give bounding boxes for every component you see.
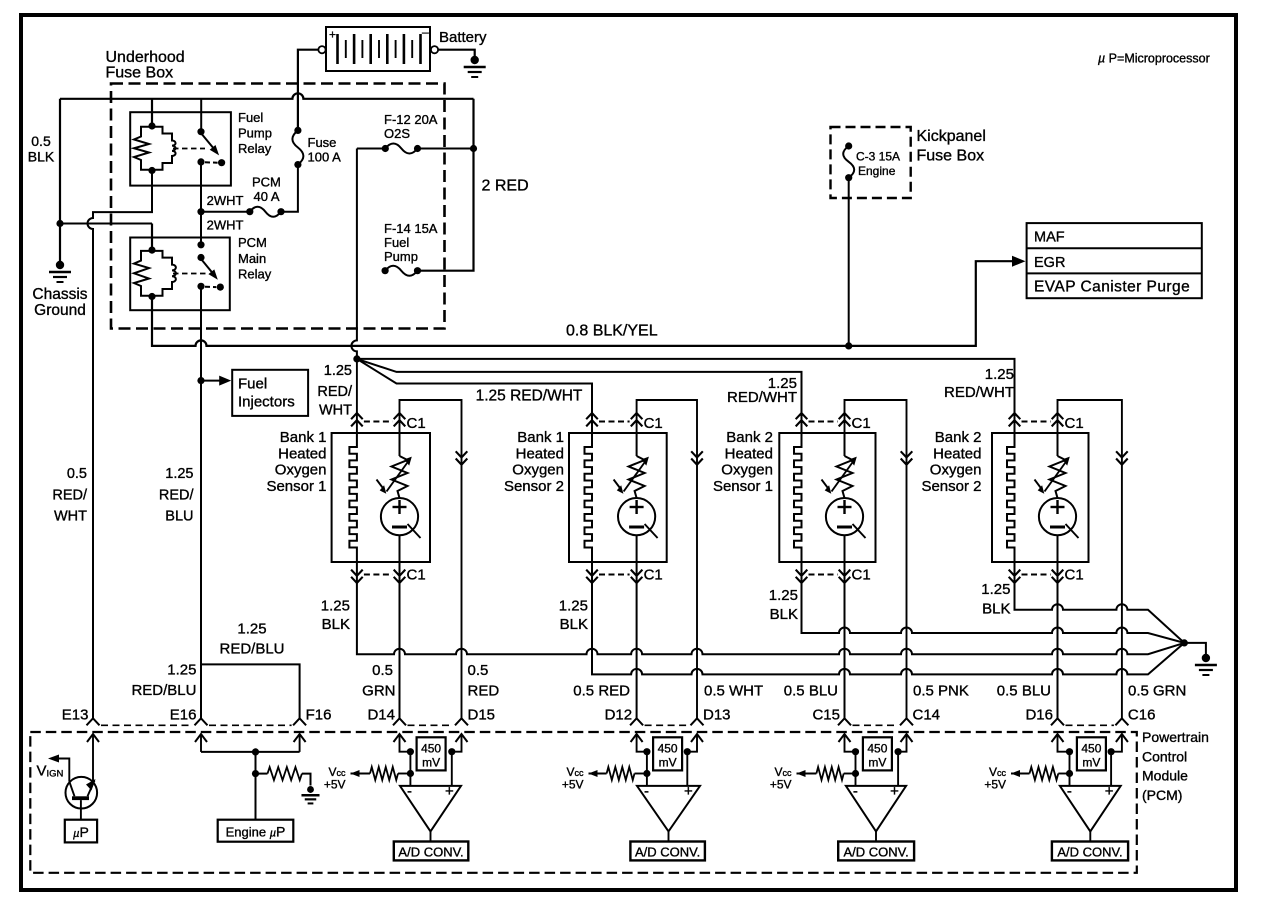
svg-text:Heated: Heated [278,445,326,462]
resistor to Vcc (ch3) [797,767,856,780]
A/D converter (ch3) [838,842,914,861]
svg-text:2WHT: 2WHT [207,218,244,233]
svg-text:Ground: Ground [34,302,86,319]
A/D converter (ch2) [630,842,705,861]
svg-text:A/D CONV.: A/D CONV. [398,844,463,859]
svg-text:mV: mV [868,755,886,769]
oxygen sensor box Bank 2 Sensor 2 [992,433,1089,562]
wire E16/F16 column 1.25 RED/BLU [201,286,300,718]
underhood fuse box (dashed) [111,84,445,329]
svg-text:0.5 PNK: 0.5 PNK [913,683,969,700]
PCM box (dashed) [30,732,1137,873]
label 1.25 RED/WHT main [317,363,353,419]
op-amp (ch4) [1060,783,1121,831]
connector pin chevron x=201 [195,718,208,725]
junction 2WHT [197,208,204,215]
wire to PCM 40A fuse [201,211,250,213]
junction engine pull resistor [252,770,259,777]
ground bus ground symbol [1195,654,1217,675]
svg-text:C-3 15A: C-3 15A [856,150,900,164]
svg-text:Bank 2: Bank 2 [935,429,982,446]
fuel injectors box [232,370,308,416]
svg-text:Fuel: Fuel [238,376,267,393]
svg-text:C1: C1 [852,415,871,432]
svg-text:-: - [853,783,858,800]
svg-text:C14: C14 [913,707,941,724]
junction ground bus [1181,639,1188,646]
svg-text:RED/: RED/ [52,488,88,504]
svg-text:BLK: BLK [982,601,1010,618]
svg-text:0.5 RED: 0.5 RED [573,683,630,700]
arrow VIGN [48,755,59,763]
wire heater ground bus (Bank 2 Sensor 1) [802,562,1185,643]
wire fuel pump relay coil top [151,99,153,126]
label PCM Main Relay [238,235,272,282]
label 1.25 RED/WHT sensor3 [727,375,797,406]
svg-text:C15: C15 [812,707,840,724]
ground battery [464,56,486,77]
oxygen sensor box Bank 1 Sensor 1 [332,433,430,562]
label 0.5 RED/WHT [52,466,88,525]
svg-text:100 A: 100 A [308,150,342,165]
junction kickpanel / 0.8 BLK/YEL [845,342,852,349]
label 0.5 BLK [28,133,55,165]
wire pin links (ch1) [400,734,462,752]
wire 1.25 RED/WHT main drop [351,149,357,359]
svg-text:C16: C16 [1128,707,1156,724]
svg-text:Main: Main [238,251,266,266]
svg-text:Kickpanel: Kickpanel [917,128,986,145]
svg-text:A/D CONV.: A/D CONV. [635,844,700,859]
svg-text:Powertrain: Powertrain [1142,729,1209,745]
svg-text:D12: D12 [605,707,633,724]
wire pin links (ch4) [1058,734,1122,752]
svg-text:1.25: 1.25 [985,366,1014,383]
junction Vcc resistor (ch3) [852,770,859,777]
svg-text:Heated: Heated [725,445,773,462]
connector C1 top (Bank 2 Sensor 1) [796,413,871,432]
svg-text:RED/WHT: RED/WHT [727,389,797,406]
wire op-amp inputs (ch4) [1070,752,1112,786]
wire F-12 to 2 RED [418,148,474,150]
svg-text:1.25: 1.25 [167,662,196,679]
heater element (Bank 1 Sensor 2) [585,433,593,562]
svg-text:A/D CONV.: A/D CONV. [1057,844,1122,859]
wire sensor reference bridge (Bank 2 Sensor 2) [1058,400,1122,718]
svg-text:2 RED: 2 RED [482,178,529,195]
svg-text:mV: mV [1082,755,1100,769]
svg-text:+: + [329,28,336,42]
svg-text:(PCM): (PCM) [1142,787,1182,803]
resistor to Vcc (ch4) [1011,767,1070,780]
connector pin chevron x=1121.9 [1115,718,1128,725]
svg-text:1.25: 1.25 [237,621,266,638]
connector C1 top (Bank 1 Sensor 2) [586,413,663,432]
svg-text:C1: C1 [1065,415,1084,432]
svg-text:450: 450 [867,741,887,755]
svg-text:1.25: 1.25 [769,587,798,604]
wire top rail 0.5 BLK [60,93,474,98]
svg-text:Battery: Battery [439,29,487,46]
svg-text:WHT: WHT [54,509,87,525]
pcm main relay box [130,238,230,311]
wire op-amp inputs (ch2) [647,752,687,786]
svg-text:BLK: BLK [322,616,350,633]
pin arrow x=697 [691,734,703,742]
svg-text:C1: C1 [644,567,663,584]
svg-text:-: - [644,783,649,800]
svg-text:Bank 1: Bank 1 [517,429,564,446]
junction 2 RED / F-12 [470,145,477,152]
svg-text:F-12 20A: F-12 20A [384,112,438,127]
connector C1 top (Bank 1 Sensor 1) [351,413,426,432]
svg-text:+: + [445,783,454,800]
wire sensor reference bridge (Bank 1 Sensor 2) [637,400,697,718]
svg-text:0.5: 0.5 [372,662,393,679]
wire heater bus 1 (to sensor 4) [357,359,1015,433]
connector C1 bottom (Bank 1 Sensor 2) [586,567,663,584]
label Vcc +5V (ch4) [984,765,1006,792]
svg-text:450: 450 [421,741,441,755]
label PCM 40 A [252,175,281,205]
wire 2 RED [418,99,474,271]
label 1.25 RED/WHT sensor4 [944,366,1014,401]
wire sensor signal (Bank 2 Sensor 1) [844,562,846,718]
svg-text:MAF: MAF [1034,230,1065,246]
svg-text:BLK: BLK [560,616,588,633]
wire battery negative [438,50,475,56]
label 0.5 RED (D15) [468,662,500,700]
pin arrow x=93 [87,734,99,742]
connector pin chevron x=697 [691,718,704,725]
connector dashed link 93-201 [101,724,193,726]
arrow to fuel injectors [201,376,231,386]
svg-text:Sensor 1: Sensor 1 [266,478,326,495]
svg-text:C1: C1 [852,567,871,584]
junction 1.25 RED/WHT fan-out [353,355,360,362]
svg-text:Fuel: Fuel [238,110,263,125]
svg-text:RED/: RED/ [159,488,195,504]
label 1.25 RED/BLU E16 [131,662,196,700]
wire 0.5 BLK drop [59,99,61,224]
A/D converter (ch1) [394,842,469,861]
svg-text:1.25 RED/WHT: 1.25 RED/WHT [476,388,583,405]
svg-text:Engine: Engine [858,164,896,178]
svg-text:BLK: BLK [770,606,798,623]
svg-text:+5V: +5V [770,778,792,792]
svg-text:RED/: RED/ [317,384,353,400]
connector chevrons reference line (Bank 2 Sensor 1) [901,451,913,464]
label Vcc +5V (ch2) [562,765,584,792]
svg-text:Module: Module [1142,768,1188,784]
op-amp (ch1) [400,783,461,831]
wire sensor signal (Bank 2 Sensor 2) [1057,562,1059,718]
connector dashed link 201-299.6 [209,724,292,726]
connector pin chevron x=636.6 [630,718,643,725]
wire chassis to PCM main relay coil [151,224,153,251]
wire op-amp output (ch1) [430,831,432,841]
junction Vcc resistor (ch4) [1066,770,1073,777]
connector dashed link 844.5-906.5 [853,724,899,726]
label Kickpanel Fuse Box [917,128,986,165]
reference 450 mV (ch2) [643,737,691,770]
connector C1 bottom (Bank 2 Sensor 1) [796,567,871,584]
wire E16/F16 join [201,734,300,752]
oxygen sensor box Bank 2 Sensor 1 [779,433,875,562]
resistor engine pull-down [256,767,311,785]
label Bank 2 Heated Oxygen Sensor 2 [921,429,981,495]
wire kickpanel drop [848,178,850,346]
wire chassis rail [60,223,152,225]
svg-text:1.25: 1.25 [559,598,588,615]
label Vcc +5V (ch3) [770,765,792,792]
svg-text:Pump: Pump [384,249,418,264]
svg-text:40 A: 40 A [254,189,280,204]
label Chassis Ground [32,286,87,319]
svg-text:E16: E16 [170,707,197,724]
sensor element (Bank 2 Sensor 1) [822,433,866,562]
reference 450 mV (ch1) [407,737,456,770]
wire heater ground bus (Bank 2 Sensor 2) [1015,562,1185,643]
svg-text:0.5: 0.5 [31,133,51,149]
fuel pump relay switch [197,128,225,166]
label Fuse 100 A [308,135,342,165]
svg-text:C1: C1 [407,415,426,432]
svg-text:Oxygen: Oxygen [721,462,773,479]
connector chevrons reference line (Bank 1 Sensor 1) [456,451,468,464]
svg-text:Sensor 1: Sensor 1 [713,478,773,495]
microprocessor box (uP) [65,820,97,843]
svg-text:Bank 1: Bank 1 [280,429,327,446]
wire F-12 to main drop [357,148,385,150]
svg-text:Control: Control [1142,748,1187,764]
battery [318,25,438,71]
svg-text:GRN: GRN [362,683,395,700]
svg-text:Fuel: Fuel [384,235,409,250]
label 1.25 BLK (Bank 2 Sensor 2) [981,581,1010,618]
connector chevrons reference line (Bank 1 Sensor 2) [691,451,703,464]
svg-text:D14: D14 [367,707,395,724]
svg-text:+: + [890,783,899,800]
op-amp (ch2) [637,783,700,831]
fuel pump relay link (dashed) [173,148,205,150]
connector dashed link 1057.5-1121.9 [1066,724,1114,726]
wire op-amp output (ch4) [1089,831,1091,841]
connector pin chevron x=1057.5 [1051,718,1064,725]
connector pin chevron x=299.6 [293,718,306,725]
label Fuel Injectors [238,376,295,411]
svg-text:C1: C1 [644,415,663,432]
svg-text:0.5 GRN: 0.5 GRN [1128,683,1186,700]
svg-text:O2S: O2S [384,126,410,141]
svg-text:2WHT: 2WHT [207,193,244,208]
svg-text:0.5: 0.5 [67,466,87,482]
svg-text:0.5 WHT: 0.5 WHT [704,683,763,700]
wire sensor reference bridge (Bank 2 Sensor 1) [845,400,907,718]
svg-text:C1: C1 [1065,567,1084,584]
svg-text:C1: C1 [407,567,426,584]
label Underhood Fuse Box [106,49,185,82]
kickpanel fuse box (dashed) [831,127,911,198]
svg-text:–: – [422,25,429,39]
svg-text:Fuse Box: Fuse Box [106,65,174,82]
svg-text:1.25: 1.25 [324,363,352,379]
svg-text:Oxygen: Oxygen [930,462,982,479]
label 1.25 BLK (Bank 1 Sensor 2) [559,598,588,634]
label 0.5 GRN [362,662,395,700]
transistor Q1 [57,759,97,820]
connector C1 bottom (Bank 2 Sensor 2) [1009,567,1084,584]
svg-text:+5V: +5V [984,778,1006,792]
fuel pump relay coil [134,122,176,174]
svg-text:1.25: 1.25 [981,581,1010,598]
connector chevrons reference line (Bank 2 Sensor 2) [1116,451,1128,464]
wire sensor 1 heater drop [356,359,358,433]
svg-text:E13: E13 [62,707,89,724]
pin arrow x=1057.5 [1052,734,1064,742]
MAF EGR EVAP box [1027,223,1202,298]
label 1.25 RED/BLU bridge [219,621,284,658]
svg-text:Oxygen: Oxygen [512,462,564,479]
connector C1 top (Bank 2 Sensor 2) [1009,413,1084,432]
oxygen sensor box Bank 1 Sensor 2 [569,433,667,562]
pcm main relay switch [197,241,224,291]
svg-text:+5V: +5V [562,778,584,792]
svg-text:450: 450 [658,741,678,755]
wire sensor reference bridge (Bank 1 Sensor 1) [400,400,462,718]
label Bank 2 Heated Oxygen Sensor 1 [713,429,773,495]
svg-text:Relay: Relay [238,141,272,156]
svg-text:Bank 2: Bank 2 [726,429,773,446]
arrow to EGR [1012,256,1026,267]
label F-12 20A O2S [384,112,438,141]
svg-text:RED: RED [468,683,500,700]
heater element (Bank 2 Sensor 1) [794,433,802,562]
connector pin chevron x=844.5 [838,718,851,725]
fuel pump relay box [130,112,231,185]
connector pin chevron x=906.5 [900,718,913,725]
svg-text:0.5: 0.5 [468,662,489,679]
pin arrow x=299.6 [294,734,306,742]
connector pin chevron x=399.5 [393,718,406,725]
pcm main relay coil [134,247,176,301]
wire heater bus 3 (to sensor 2) [357,359,592,433]
svg-text:RED/BLU: RED/BLU [219,641,284,658]
heater element (Bank 1 Sensor 1) [349,433,357,562]
svg-text:+5V: +5V [324,778,346,792]
svg-text:Injectors: Injectors [238,394,295,411]
wire 2WHT switch column [200,162,202,245]
wire 0.5 RED/WHT to E13 [88,171,152,719]
fuse F-14 15A [382,266,422,276]
wire E13 to transistor [92,734,94,781]
svg-text:Sensor 2: Sensor 2 [504,478,564,495]
fuse F-12 20A O2S [382,144,421,154]
label Fuel Pump Relay [238,110,272,156]
op-amp (ch3) [846,783,906,831]
wire op-amp output (ch2) [668,831,670,841]
pin arrow x=1121.9 [1116,734,1128,742]
label Bank 1 Heated Oxygen Sensor 2 [504,429,564,495]
wire sensor signal (Bank 1 Sensor 2) [636,562,638,718]
wire heater bus 2 (to sensor 3) [357,359,802,433]
svg-text:PCM: PCM [238,235,267,250]
svg-text:D13: D13 [703,707,731,724]
wire heater ground bus (Bank 1 Sensor 2) [592,562,1184,674]
pin arrow x=906.5 [901,734,913,742]
svg-text:0.5 BLU: 0.5 BLU [784,683,838,700]
svg-text:Pump: Pump [238,126,272,141]
ground engine resistor [301,786,319,803]
svg-text:Sensor 2: Sensor 2 [921,478,981,495]
svg-text:mV: mV [422,755,440,769]
svg-text:1.25: 1.25 [321,598,350,615]
reference 450 mV (ch3) [852,737,902,770]
connector dashed link 399.5-461.5 [408,724,454,726]
label Vcc +5V (ch1) [324,765,346,792]
wire PCM 40A fuse to fuse 100A [281,165,298,212]
svg-text:PCM: PCM [252,175,281,190]
svg-text:+: + [1105,783,1114,800]
svg-text:Fuse: Fuse [308,135,337,150]
fuse PCM 40 A [246,207,284,217]
label Bank 1 Heated Oxygen Sensor 1 [266,429,326,495]
svg-text:F-14 15A: F-14 15A [384,221,438,236]
pin arrow x=844.5 [839,734,851,742]
junction fuel injectors [197,377,204,384]
svg-text:BLK: BLK [28,149,55,165]
wire heater ground bus (Bank 1 Sensor 1) [357,562,1184,654]
svg-text:450: 450 [1081,741,1101,755]
wire battery positive [298,50,319,130]
pin arrow x=636.6 [631,734,643,742]
svg-text:Underhood: Underhood [106,49,185,66]
fuse C-3 15A Engine [843,142,854,181]
label Powertrain Control Module (PCM) [1142,729,1209,803]
svg-text:-: - [1067,783,1072,800]
wire chassis ground stub [59,224,61,263]
wire sensor signal (Bank 1 Sensor 1) [399,562,401,718]
svg-text:-: - [407,783,412,800]
svg-text:D15: D15 [468,707,496,724]
sensor element (Bank 1 Sensor 1) [377,433,421,562]
resistor to Vcc (ch2) [589,767,647,780]
svg-text:Heated: Heated [933,445,981,462]
wire ground bus to ground [1184,643,1206,655]
pin arrow x=399.5 [394,734,406,742]
svg-text:+: + [684,783,693,800]
wire 0.8 BLK/YEL [152,261,1013,346]
engine microprocessor box [218,820,294,842]
wire pin links (ch2) [637,734,697,752]
fuse 100 A [292,127,303,168]
heater element (Bank 2 Sensor 2) [1007,433,1015,562]
sensor element (Bank 1 Sensor 2) [614,433,658,562]
svg-text:Heated: Heated [516,445,564,462]
svg-text:EVAP Canister Purge: EVAP Canister Purge [1034,279,1190,296]
reference 450 mV (ch4) [1066,737,1115,770]
svg-text:BLU: BLU [165,509,193,525]
pin arrow x=201 [195,734,207,742]
wire op-amp inputs (ch3) [856,752,899,786]
junction engine uP [252,748,259,755]
svg-text:Engine µP: Engine µP [226,824,286,840]
svg-text:0.5 BLU: 0.5 BLU [997,683,1051,700]
svg-text:Chassis: Chassis [32,286,87,303]
connector dashed link 636.6-697 [645,724,689,726]
A/D converter (ch4) [1052,842,1128,861]
svg-text:Oxygen: Oxygen [275,462,327,479]
